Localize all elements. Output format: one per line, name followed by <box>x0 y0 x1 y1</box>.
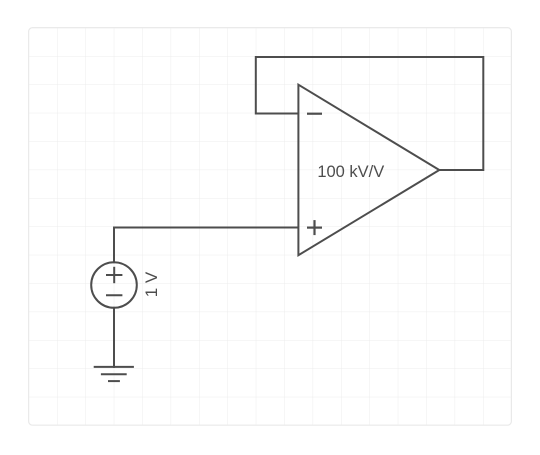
svg-text:1 V: 1 V <box>142 271 161 297</box>
svg-text:100 kV/V: 100 kV/V <box>317 163 384 181</box>
